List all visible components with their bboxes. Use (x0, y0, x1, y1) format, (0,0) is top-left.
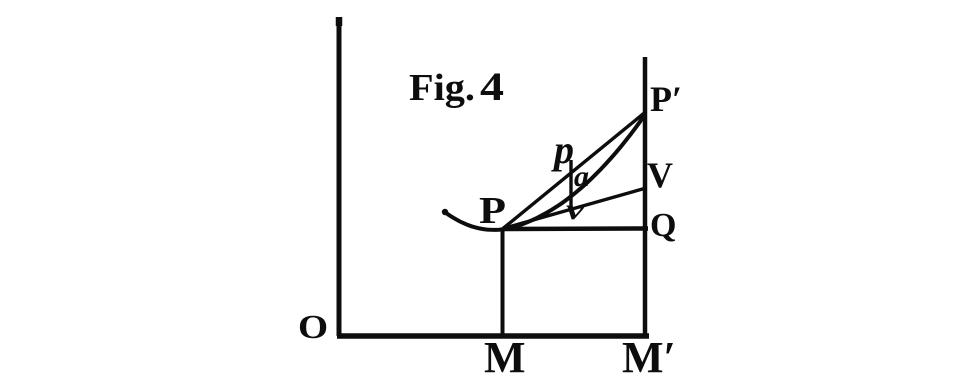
svg-text:4: 4 (480, 64, 504, 109)
line PV (503, 188, 646, 229)
svg-text:P′: P′ (650, 79, 682, 119)
ordinate P'M' (643, 57, 648, 335)
svg-text:O: O (298, 308, 328, 345)
y-axis (337, 17, 342, 336)
svg-text:v: v (566, 193, 585, 226)
y-axis top blob (336, 17, 343, 26)
ordinate PM (501, 229, 505, 336)
curve left of P (444, 212, 503, 230)
svg-text:P: P (479, 190, 506, 232)
svg-text:M: M (484, 333, 526, 382)
curve arc PP' (503, 114, 645, 230)
svg-text:Q: Q (650, 207, 676, 244)
x-axis (337, 333, 649, 339)
svg-text:p: p (551, 127, 574, 172)
tick segment p-a-v (569, 160, 572, 207)
svg-text:Fig.: Fig. (409, 67, 475, 109)
svg-text:M′: M′ (622, 333, 676, 382)
svg-text:a: a (574, 160, 589, 193)
line PQ (503, 226, 648, 231)
svg-text:V: V (647, 155, 673, 195)
chord PP' (503, 112, 646, 229)
curve tail start blob (442, 209, 448, 215)
